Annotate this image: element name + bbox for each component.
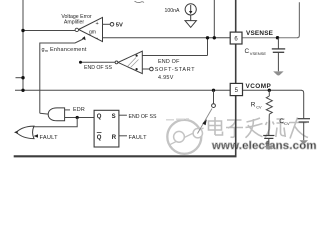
wire S output stub xyxy=(119,114,127,116)
pin box 6 xyxy=(230,32,242,44)
wire down to OR gate xyxy=(34,118,77,127)
op-amp U1 error amplifier gm xyxy=(79,17,103,41)
chip edge bottom line xyxy=(14,155,237,157)
terminal circle 4.95V ref xyxy=(150,67,154,71)
current source I1 100nA xyxy=(185,4,196,15)
pin box 5 xyxy=(230,83,242,95)
node dot (77.2,117.5) xyxy=(76,116,79,119)
wire comparator bottom input xyxy=(142,68,149,70)
stray squiggle top xyxy=(135,1,145,3)
wire to 5V terminal xyxy=(103,23,111,25)
ground (C_CV) xyxy=(264,146,273,150)
capacitor C_VSENSE xyxy=(277,38,279,49)
wire AND input from latch Q xyxy=(65,117,95,119)
watermark logo circle xyxy=(166,119,204,154)
svg-text:4.95V: 4.95V xyxy=(158,75,174,81)
svg-text:SOFT-START: SOFT-START xyxy=(155,67,196,73)
svg-text:Q: Q xyxy=(97,114,102,120)
node END OF SS endpoint dot xyxy=(79,61,82,64)
wire R input stub xyxy=(119,135,127,137)
OR bottom input arrow xyxy=(34,134,38,137)
comparator U2 (end of soft-start) xyxy=(118,51,142,73)
node dot (207.5,37.8) xyxy=(206,36,209,39)
svg-text:−: − xyxy=(95,36,99,42)
node dot (214.3,37.8) xyxy=(213,36,216,39)
wire: left vertical rail x=23 xyxy=(22,0,24,90)
wire: VCOMP rail y=90.3 xyxy=(15,89,230,91)
wire: VSENSE tap down to comparator xyxy=(142,38,207,56)
node dot (269.3,90.3) xyxy=(268,89,271,92)
svg-text:EDR: EDR xyxy=(73,107,85,113)
wire: stub at y=77.7 xyxy=(16,77,24,79)
terminal circle 5V xyxy=(110,23,114,27)
node dot (23,30.5) xyxy=(21,29,24,32)
svg-text:gm Enhancement: gm Enhancement xyxy=(42,47,87,53)
svg-text:END OF SS: END OF SS xyxy=(129,114,157,120)
EA output circle xyxy=(75,28,78,31)
OR gate fault (mirrored, points left) xyxy=(16,126,34,139)
comparator output circle xyxy=(115,61,118,64)
svg-text:END OF SS: END OF SS xyxy=(84,65,112,71)
svg-text:VSENSE: VSENSE xyxy=(246,30,274,37)
resistor R_CV xyxy=(268,90,270,96)
svg-text:C: C xyxy=(245,48,250,55)
SR latch U3 xyxy=(94,110,119,147)
EDR input stub xyxy=(65,109,70,111)
wire: VSENSE rail y=37.8 xyxy=(103,37,231,39)
node dot (23,90.3) xyxy=(21,89,24,92)
svg-text:100nA: 100nA xyxy=(165,8,181,14)
node dot (23,77.7) xyxy=(21,76,24,79)
svg-text:FAULT: FAULT xyxy=(129,135,148,141)
watermark chinese text 电子发烧友 xyxy=(209,117,309,139)
svg-text:Amplifier: Amplifier xyxy=(64,20,84,26)
svg-text:VCOMP: VCOMP xyxy=(246,83,272,90)
svg-text:S: S xyxy=(112,114,116,120)
svg-text:FAULT: FAULT xyxy=(40,135,59,141)
svg-text:R: R xyxy=(251,102,256,109)
svg-text:END OF: END OF xyxy=(158,59,180,65)
node dot (213.5,90.3) xyxy=(212,89,215,92)
AND gate EDR (mirrored, points left) xyxy=(48,108,64,121)
switch on VCOMP xyxy=(213,90,215,103)
svg-text:R: R xyxy=(112,135,117,141)
arrowhead into EA xyxy=(82,36,86,40)
svg-text:VSENSE: VSENSE xyxy=(250,51,267,56)
ground (C2) xyxy=(299,140,308,144)
chip edge vertical at x=235.7 xyxy=(235,0,237,156)
OR output arrow xyxy=(14,131,18,134)
svg-text:CV: CV xyxy=(256,106,262,110)
ground (C_VSENSE) xyxy=(273,71,283,75)
capacitor C_CV xyxy=(268,114,271,135)
node dot (277.5,37.7) xyxy=(276,36,279,39)
svg-text:Q: Q xyxy=(97,135,102,141)
svg-text:+: + xyxy=(96,21,99,27)
svg-text:gm: gm xyxy=(89,30,96,36)
wire: vertical to top x=214.3 xyxy=(213,0,215,38)
svg-text:5V: 5V xyxy=(116,23,123,29)
wire: EA output line y=30.5 xyxy=(23,30,75,32)
capacitor C2 right branch xyxy=(298,118,310,120)
svg-text:CV: CV xyxy=(284,122,290,126)
wire END OF SS from comparator output xyxy=(81,61,116,63)
wire gm enhancement path xyxy=(40,39,83,113)
wire AND output to gm enhancement rail xyxy=(40,112,48,115)
